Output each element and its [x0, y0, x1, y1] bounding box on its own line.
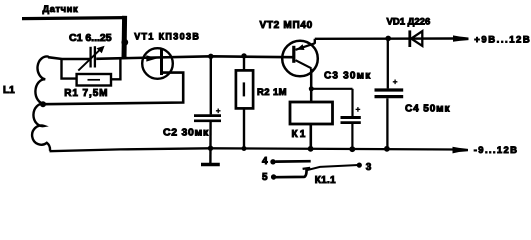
contact K1.1 common wire	[276, 169, 307, 177]
terminal 4 dot	[270, 159, 275, 164]
diode VD1 triangle	[411, 31, 422, 46]
svg-text:R2 1М: R2 1М	[257, 87, 287, 98]
transistor VT2 emitter up lead	[314, 39, 316, 44]
resistor R2 top lead	[243, 56, 245, 71]
diode VD1 cathode bar	[408, 30, 411, 47]
arrow bottom rail output	[453, 147, 469, 154]
svg-text:-9...12В: -9...12В	[474, 145, 519, 156]
wire VT1 source loop to L1 tap	[44, 73, 183, 105]
svg-text:Датчик: Датчик	[43, 4, 79, 14]
svg-text:С3 30мк: С3 30мк	[324, 71, 372, 82]
node VD1/C4 junction dot	[385, 36, 391, 42]
resistor R1 right lead	[111, 58, 120, 79]
resistor R2 body	[236, 70, 253, 108]
transistor VT2 emitter with arrow	[296, 43, 315, 50]
capacitor C4 top lead	[387, 38, 389, 88]
terminal 4 wire	[276, 160, 311, 163]
capacitor C1 plates	[89, 47, 91, 68]
wire bottom rail	[50, 148, 456, 151]
resistor R2 bottom lead	[243, 108, 245, 148]
node L1 tap junction	[40, 101, 46, 107]
capacitor C2 bottom lead	[209, 122, 212, 163]
node C3/rail junction dot	[349, 146, 355, 152]
capacitor C2 plus sign	[216, 109, 221, 114]
capacitor C4 plates	[375, 88, 404, 91]
node K1/rail junction dot	[308, 146, 314, 152]
wire emitter top line to VD1	[315, 37, 455, 40]
node bus/R2 junction dot	[241, 53, 246, 58]
relay K1 bottom lead	[309, 124, 312, 149]
inductor L1 coil	[32, 56, 50, 150]
ground bar below C2	[201, 163, 220, 166]
transistor VT1 channel line	[160, 49, 163, 75]
capacitor C3 plus sign	[356, 107, 361, 112]
arrow +9V output	[453, 35, 469, 41]
node bus/C2 junction dot	[208, 54, 213, 59]
terminal 3 dot	[357, 163, 362, 168]
node dot on antenna wire	[121, 39, 128, 46]
wire C3 branch horizontal	[311, 88, 352, 90]
capacitor C2 top lead	[210, 56, 212, 114]
resistor R1 left lead	[62, 58, 77, 78]
capacitor C2 plates	[194, 114, 221, 117]
capacitor C3 plates	[341, 116, 361, 119]
contact K1.1 movable arm	[307, 165, 359, 170]
node C4/rail junction dot	[384, 146, 390, 152]
svg-text:+9В...12В: +9В...12В	[474, 34, 531, 45]
transistor VT1 gate arrow	[146, 55, 157, 61]
wire VT2 collector down to K1	[310, 69, 313, 103]
svg-text:VD1 Д226: VD1 Д226	[387, 17, 431, 28]
transistor VT2 collector	[296, 60, 312, 68]
wire main bus left of C1	[48, 57, 90, 59]
node C2/rail junction dot	[208, 146, 213, 151]
capacitor C3 top lead	[351, 89, 353, 116]
transistor VT2 base bar	[292, 46, 295, 63]
resistor R1 body	[77, 74, 111, 86]
svg-text:К1.1: К1.1	[315, 175, 336, 186]
wire main bus C1 to VT2 base	[96, 56, 292, 59]
relay K1 coil box	[290, 102, 333, 124]
transistor VT2 body circle	[282, 41, 318, 77]
resistor R2 inner dash	[243, 82, 245, 96]
svg-text:L1: L1	[3, 85, 15, 96]
resistor R1 inner dash	[88, 79, 101, 81]
svg-text:5: 5	[262, 172, 268, 183]
wire antenna horizontal	[22, 18, 126, 19]
capacitor C4 bottom lead	[386, 98, 388, 149]
terminal 5 dot	[271, 174, 276, 179]
capacitor C4 plus sign	[393, 80, 398, 85]
capacitor C3 bottom lead	[351, 124, 353, 149]
transistor VT1 body circle	[142, 48, 173, 79]
wire antenna vertical drop	[122, 16, 128, 59]
svg-text:3: 3	[366, 162, 372, 173]
svg-text:VT2 МП40: VT2 МП40	[260, 20, 313, 31]
node R2/rail junction dot	[242, 146, 247, 151]
node C3 branch junction	[309, 86, 314, 91]
svg-text:R1 7,5М: R1 7,5М	[64, 88, 108, 99]
capacitor C1 adjustment arrow	[78, 49, 101, 71]
svg-text:К1: К1	[292, 129, 308, 140]
svg-text:VT1 КП303В: VT1 КП303В	[134, 31, 200, 41]
svg-text:С4 50мк: С4 50мк	[405, 104, 450, 115]
svg-text:С2 30мк: С2 30мк	[163, 126, 209, 138]
svg-text:4: 4	[262, 156, 268, 167]
svg-text:С1 6...25: С1 6...25	[69, 32, 112, 44]
